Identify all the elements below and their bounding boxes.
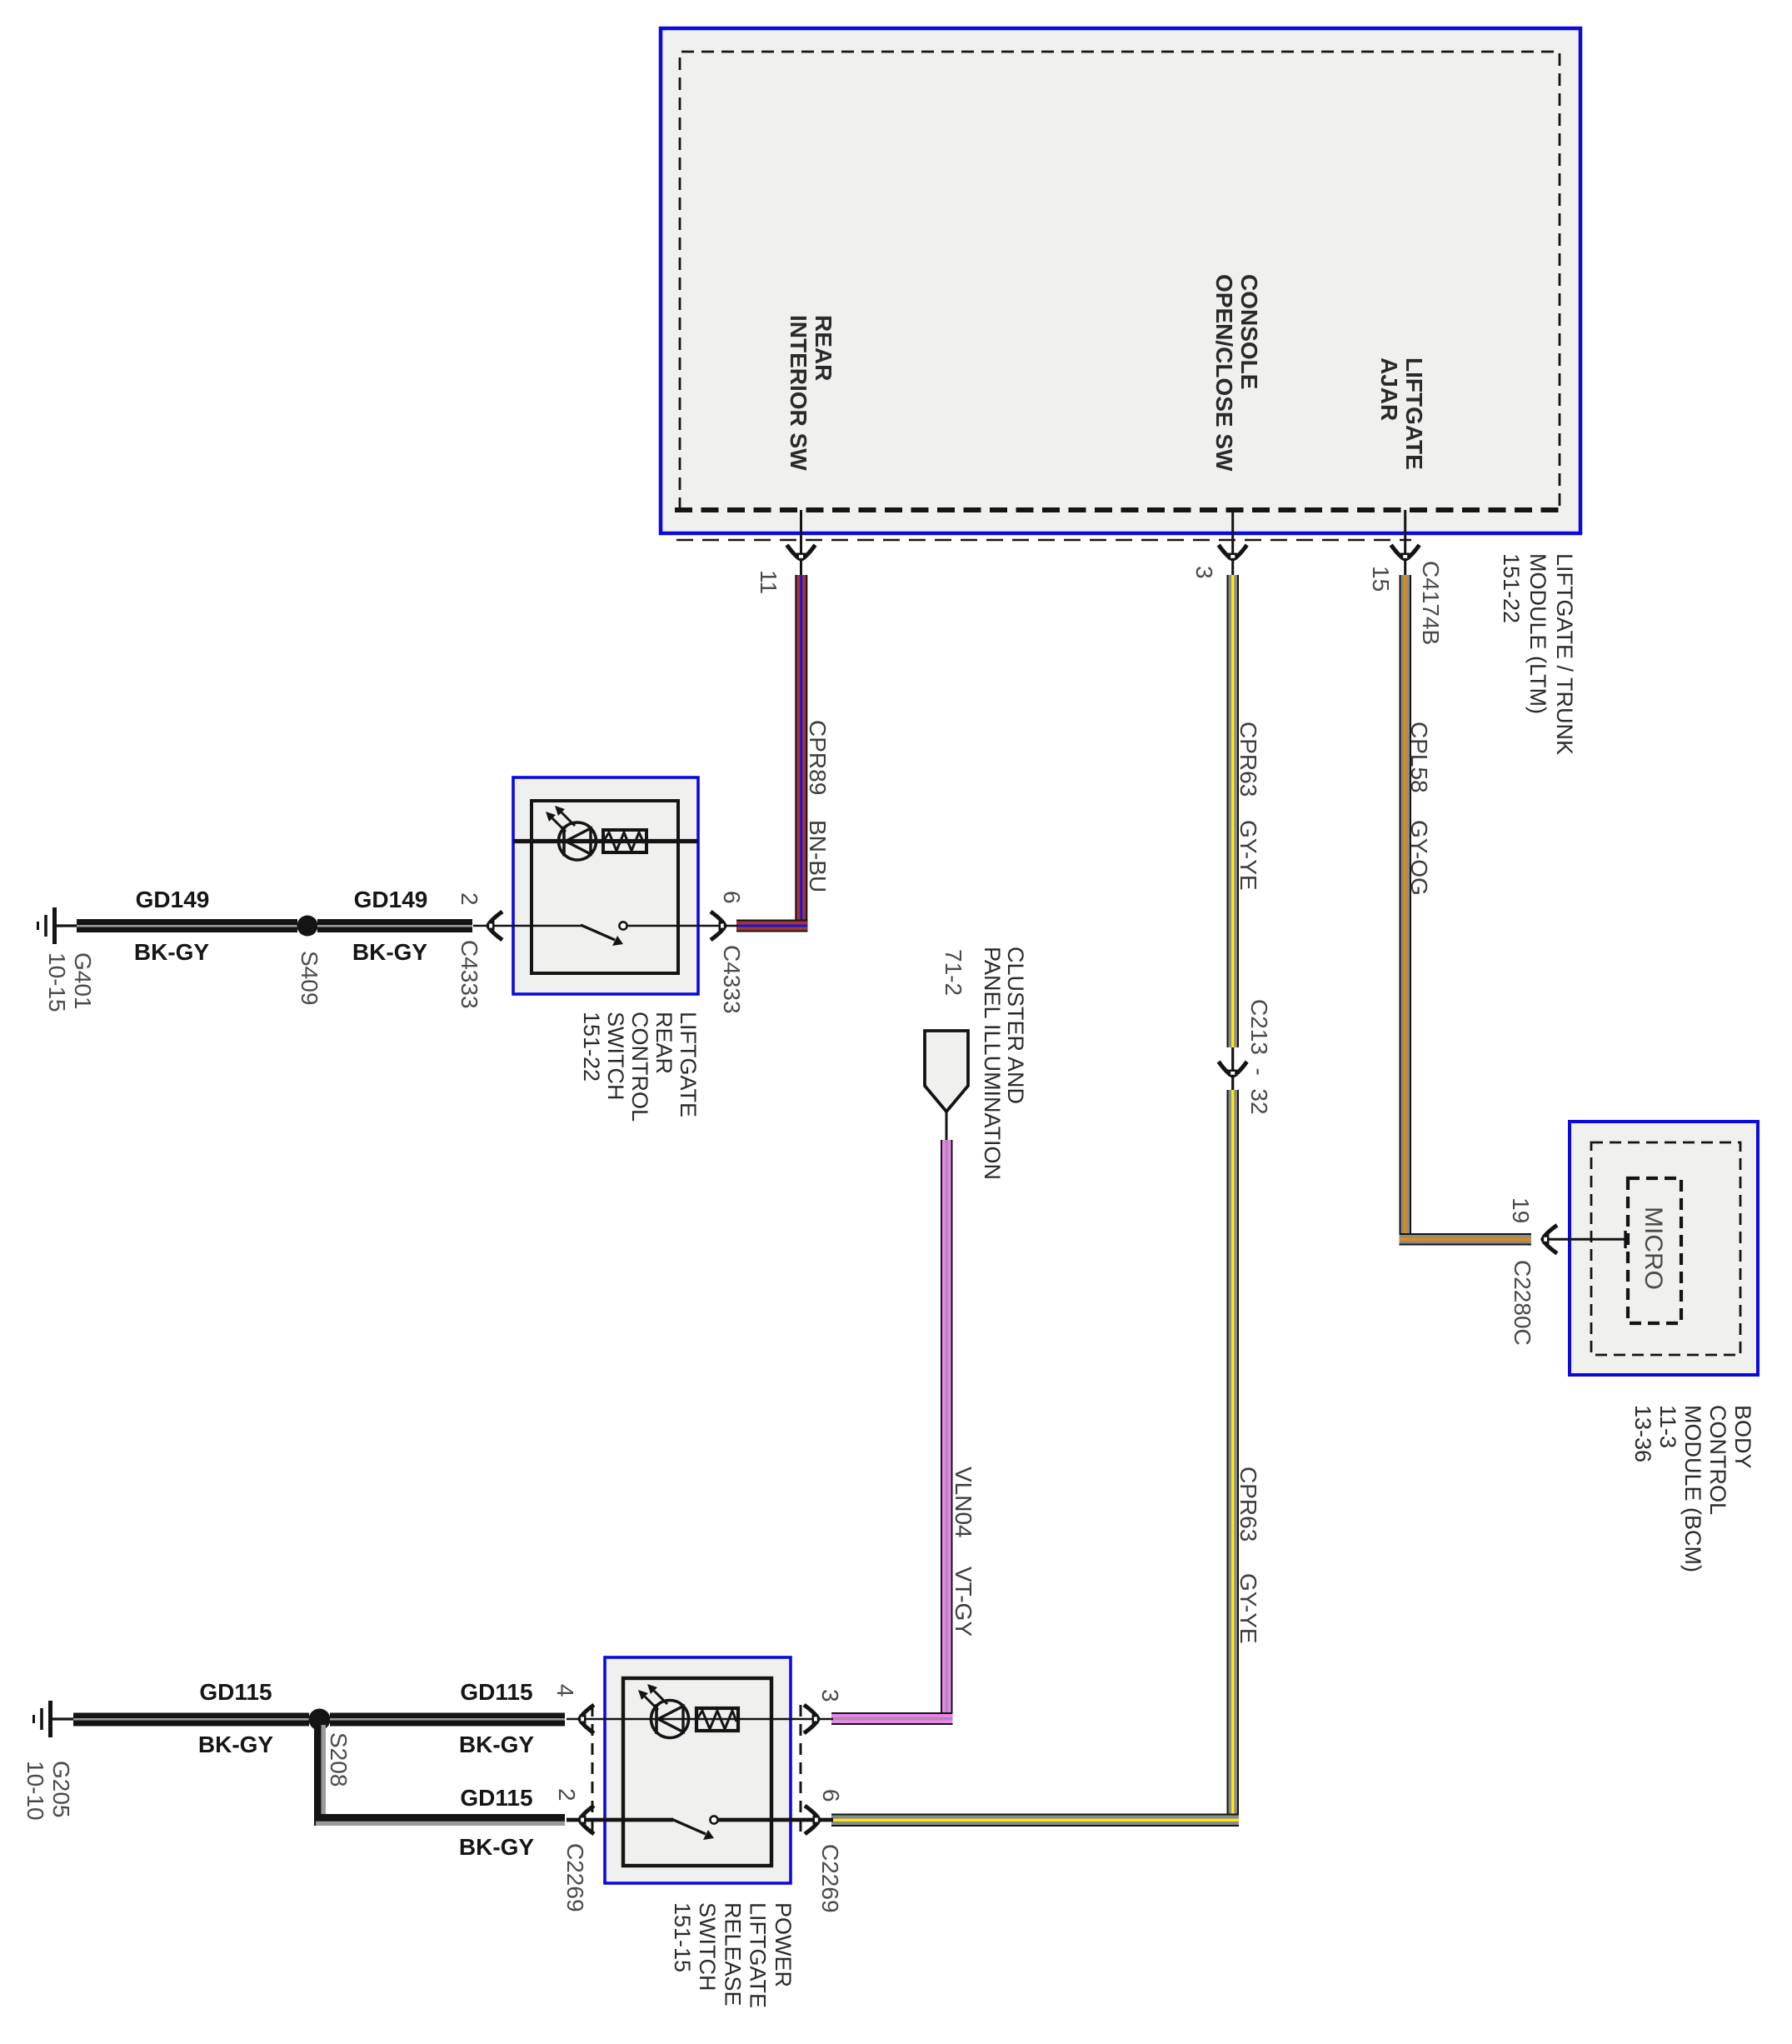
label LIFTGATE / TRUNK MODULE (LTM) 151-22 (1499, 553, 1577, 755)
svg-text:SWITCH: SWITCH (603, 1012, 628, 1100)
svg-text:11: 11 (756, 570, 781, 594)
switch: LIFTGATE REAR CONTROL SWITCH box (513, 777, 698, 994)
svg-text:3: 3 (1191, 566, 1217, 579)
svg-text:PANEL ILLUMINATION: PANEL ILLUMINATION (980, 947, 1005, 1180)
pin 4 connector arrow (580, 1705, 595, 1733)
svg-text:4: 4 (552, 1684, 578, 1697)
ground G205 symbol (34, 1701, 79, 1737)
svg-text:71-2: 71-2 (941, 949, 966, 996)
wire CPR63 GY-YE (lower segment) (1227, 1090, 1240, 1827)
wire CPL58 GY-OG (vertical) (1400, 575, 1412, 1246)
wire GD149 BK-GY (S409 to C4333) (317, 919, 472, 932)
svg-text:LIFTGATE: LIFTGATE (746, 1902, 771, 2008)
svg-text:BN-BU: BN-BU (805, 820, 831, 892)
pin 3 stub wire and connector arrow (1219, 510, 1247, 577)
svg-text:G401: G401 (70, 952, 96, 1010)
svg-text:OPEN/CLOSE SW: OPEN/CLOSE SW (1211, 274, 1237, 472)
svg-text:GD149: GD149 (136, 887, 210, 912)
ground label G401 10-15 (44, 952, 96, 1012)
svg-text:C4333: C4333 (457, 940, 482, 1009)
pin number 3 (1191, 566, 1217, 579)
switch contact branch (thick) pin2-pin6 (567, 1818, 673, 1822)
svg-text:13-36: 13-36 (1630, 1405, 1655, 1462)
pin 6 connector arrow (711, 912, 726, 940)
svg-text:G205: G205 (48, 1761, 74, 1818)
switch contact branch (thin line pin2-pin6) (473, 925, 582, 927)
wire GD149 BK-GY (ground to S409) (77, 919, 297, 932)
svg-text:LIFTGATE: LIFTGATE (1401, 357, 1427, 470)
svg-text:C4333: C4333 (719, 945, 745, 1014)
svg-text:CLUSTER AND: CLUSTER AND (1003, 947, 1028, 1104)
svg-text:RELEASE: RELEASE (720, 1902, 745, 2007)
switch blade (581, 922, 627, 946)
svg-text:C2269: C2269 (817, 1844, 843, 1913)
pin number 15 (1368, 566, 1394, 592)
svg-text:3: 3 (817, 1689, 843, 1702)
label MICRO (1640, 1207, 1667, 1290)
svg-text:BK-GY: BK-GY (134, 939, 210, 965)
svg-text:CPR63: CPR63 (1235, 1467, 1261, 1542)
ground label G205 10-10 (22, 1761, 74, 1821)
pin 2 connector arrow (488, 912, 503, 940)
svg-text:VT-GY: VT-GY (951, 1567, 976, 1637)
pin 11 stub wire and connector arrow (787, 510, 816, 577)
svg-text:BK-GY: BK-GY (459, 1834, 535, 1860)
wire GD115 BK-GY (S208 to pin 4) (330, 1713, 565, 1727)
wire CPR89 BN-BU (vertical) (795, 575, 807, 932)
svg-text:2: 2 (457, 892, 482, 906)
switch blade (671, 1816, 718, 1840)
pin 6 connector arrow (805, 1806, 820, 1834)
LED branch line (thick) (513, 839, 698, 843)
svg-text:GY-OG: GY-OG (1406, 820, 1432, 896)
label LIFTGATE AJAR (1376, 357, 1427, 470)
svg-text:MICRO: MICRO (1640, 1207, 1667, 1290)
svg-text:C2280C: C2280C (1510, 1260, 1535, 1346)
svg-text:CPR63: CPR63 (1235, 722, 1261, 797)
svg-text:CONTROL: CONTROL (1705, 1405, 1730, 1515)
svg-text:151-22: 151-22 (579, 1012, 604, 1082)
svg-text:11-3: 11-3 (1655, 1405, 1680, 1448)
ground G401 symbol (38, 907, 79, 944)
svg-text:CONTROL: CONTROL (627, 1012, 652, 1122)
label POWER LIFTGATE RELEASE SWITCH 151-15 (670, 1902, 796, 2008)
connector C2269 dashed boundary lines (592, 1705, 594, 1837)
svg-text:INTERIOR SW: INTERIOR SW (786, 315, 811, 471)
pin/connector labels around release switch (552, 1684, 578, 1697)
label REAR INTERIOR SW (786, 315, 836, 471)
svg-text:S409: S409 (297, 951, 322, 1005)
pin number 11 (756, 570, 781, 594)
svg-text:C2269: C2269 (562, 1843, 588, 1912)
switch: POWER LIFTGATE RELEASE SWITCH box (605, 1657, 791, 1883)
pin 15 stub wire and connector arrow (1391, 510, 1420, 577)
wire CPR89 BN-BU (horizontal to pin 6) (736, 920, 807, 932)
svg-text:6: 6 (818, 1789, 844, 1802)
svg-text:GY-YE: GY-YE (1235, 1573, 1261, 1644)
svg-text:10-10: 10-10 (22, 1761, 48, 1821)
svg-text:AJAR: AJAR (1376, 357, 1402, 421)
svg-text:GD149: GD149 (354, 887, 428, 912)
wire GD115 BK-GY (ground to S208) (73, 1713, 309, 1727)
LED indicator lamp (638, 1684, 689, 1738)
svg-text:15: 15 (1368, 566, 1394, 592)
label VLN04 VT-GY (951, 1467, 976, 1538)
module LTM (REAR INTERIOR SW / CONSOLE OPEN/CLOSE SW / LIFTGATE AJAR) box (661, 28, 1580, 533)
label CPL58 GY-OG (1406, 722, 1432, 793)
svg-text:19: 19 (1508, 1197, 1534, 1223)
svg-text:BK-GY: BK-GY (352, 939, 428, 965)
svg-text:VLN04: VLN04 (951, 1467, 976, 1538)
label LIFTGATE REAR CONTROL SWITCH 151-22 (579, 1012, 701, 1122)
module BCM box (1570, 1122, 1758, 1375)
svg-text:BODY: BODY (1730, 1405, 1755, 1469)
svg-text:LIFTGATE / TRUNK: LIFTGATE / TRUNK (1552, 553, 1577, 755)
wire CPR63 GY-YE (horizontal to pin 6) (831, 1814, 1239, 1827)
svg-text:BK-GY: BK-GY (459, 1732, 535, 1757)
svg-text:151-15: 151-15 (670, 1902, 695, 1972)
LED indicator lamp (546, 806, 597, 860)
wire GD115 BK-GY (S208 drop to pin 2) (314, 1723, 565, 1826)
svg-text:CONSOLE: CONSOLE (1236, 274, 1262, 389)
resistor (illumination) (603, 830, 646, 852)
svg-text:MODULE (BCM): MODULE (BCM) (1680, 1405, 1705, 1572)
svg-text:REAR: REAR (811, 315, 836, 381)
connector C4174B dashed line (676, 539, 1411, 542)
svg-text:BK-GY: BK-GY (198, 1732, 274, 1757)
svg-text:CPR89: CPR89 (805, 720, 831, 795)
svg-text:REAR: REAR (651, 1012, 676, 1074)
svg-text:2: 2 (554, 1788, 580, 1802)
wire VLN04 VT-GY (vertical) (941, 1140, 953, 1725)
pin/connector labels around switch (457, 892, 482, 906)
wire CPR63 GY-YE (upper segment) (1227, 575, 1240, 1047)
label CPR89 BN-BU (805, 720, 831, 795)
label CPR63 GY-YE (lower) (1235, 1467, 1261, 1542)
svg-text:10-15: 10-15 (44, 952, 70, 1012)
pin 2 connector arrow (580, 1806, 595, 1834)
svg-text:SWITCH: SWITCH (695, 1902, 720, 1991)
wire VLN04 VT-GY (horizontal to pin 3) (831, 1712, 953, 1725)
label CPR63 GY-YE (upper) (1235, 722, 1261, 797)
off-page connector CLUSTER AND PANEL ILLUMINATION (925, 1031, 968, 1141)
svg-text:6: 6 (719, 891, 745, 904)
pin 19 connector arrow and lead into BCM (1543, 1225, 1626, 1253)
svg-text:151-22: 151-22 (1499, 553, 1524, 623)
LED branch line (thin) pin4-pin3 (567, 1718, 833, 1721)
connector label C4174B (1418, 561, 1444, 645)
in-line connector C213 - 32 (1219, 1047, 1247, 1090)
label BODY CONTROL MODULE (BCM) 11-3 13-36 (1630, 1405, 1755, 1572)
svg-text:GD115: GD115 (199, 1679, 272, 1705)
svg-text:LIFTGATE: LIFTGATE (676, 1012, 701, 1117)
svg-text:GY-YE: GY-YE (1235, 820, 1261, 891)
svg-text:GD115: GD115 (460, 1679, 532, 1705)
svg-text:S208: S208 (326, 1732, 352, 1787)
svg-text:C213 - 32: C213 - 32 (1246, 999, 1272, 1115)
splice S208 (309, 1709, 331, 1731)
svg-text:MODULE (LTM): MODULE (LTM) (1525, 553, 1550, 714)
splice S409 (297, 916, 318, 937)
resistor (illumination) (696, 1708, 738, 1731)
label CONSOLE OPEN/CLOSE SW (1211, 274, 1262, 472)
svg-text:GD115: GD115 (460, 1785, 532, 1811)
wire CPL58 GY-OG (horizontal to BCM pin 19) (1400, 1233, 1532, 1246)
svg-text:CPL58: CPL58 (1406, 722, 1432, 793)
svg-text:C4174B: C4174B (1418, 561, 1444, 645)
svg-text:POWER: POWER (771, 1902, 796, 1987)
pin 3 connector arrow (804, 1705, 819, 1733)
